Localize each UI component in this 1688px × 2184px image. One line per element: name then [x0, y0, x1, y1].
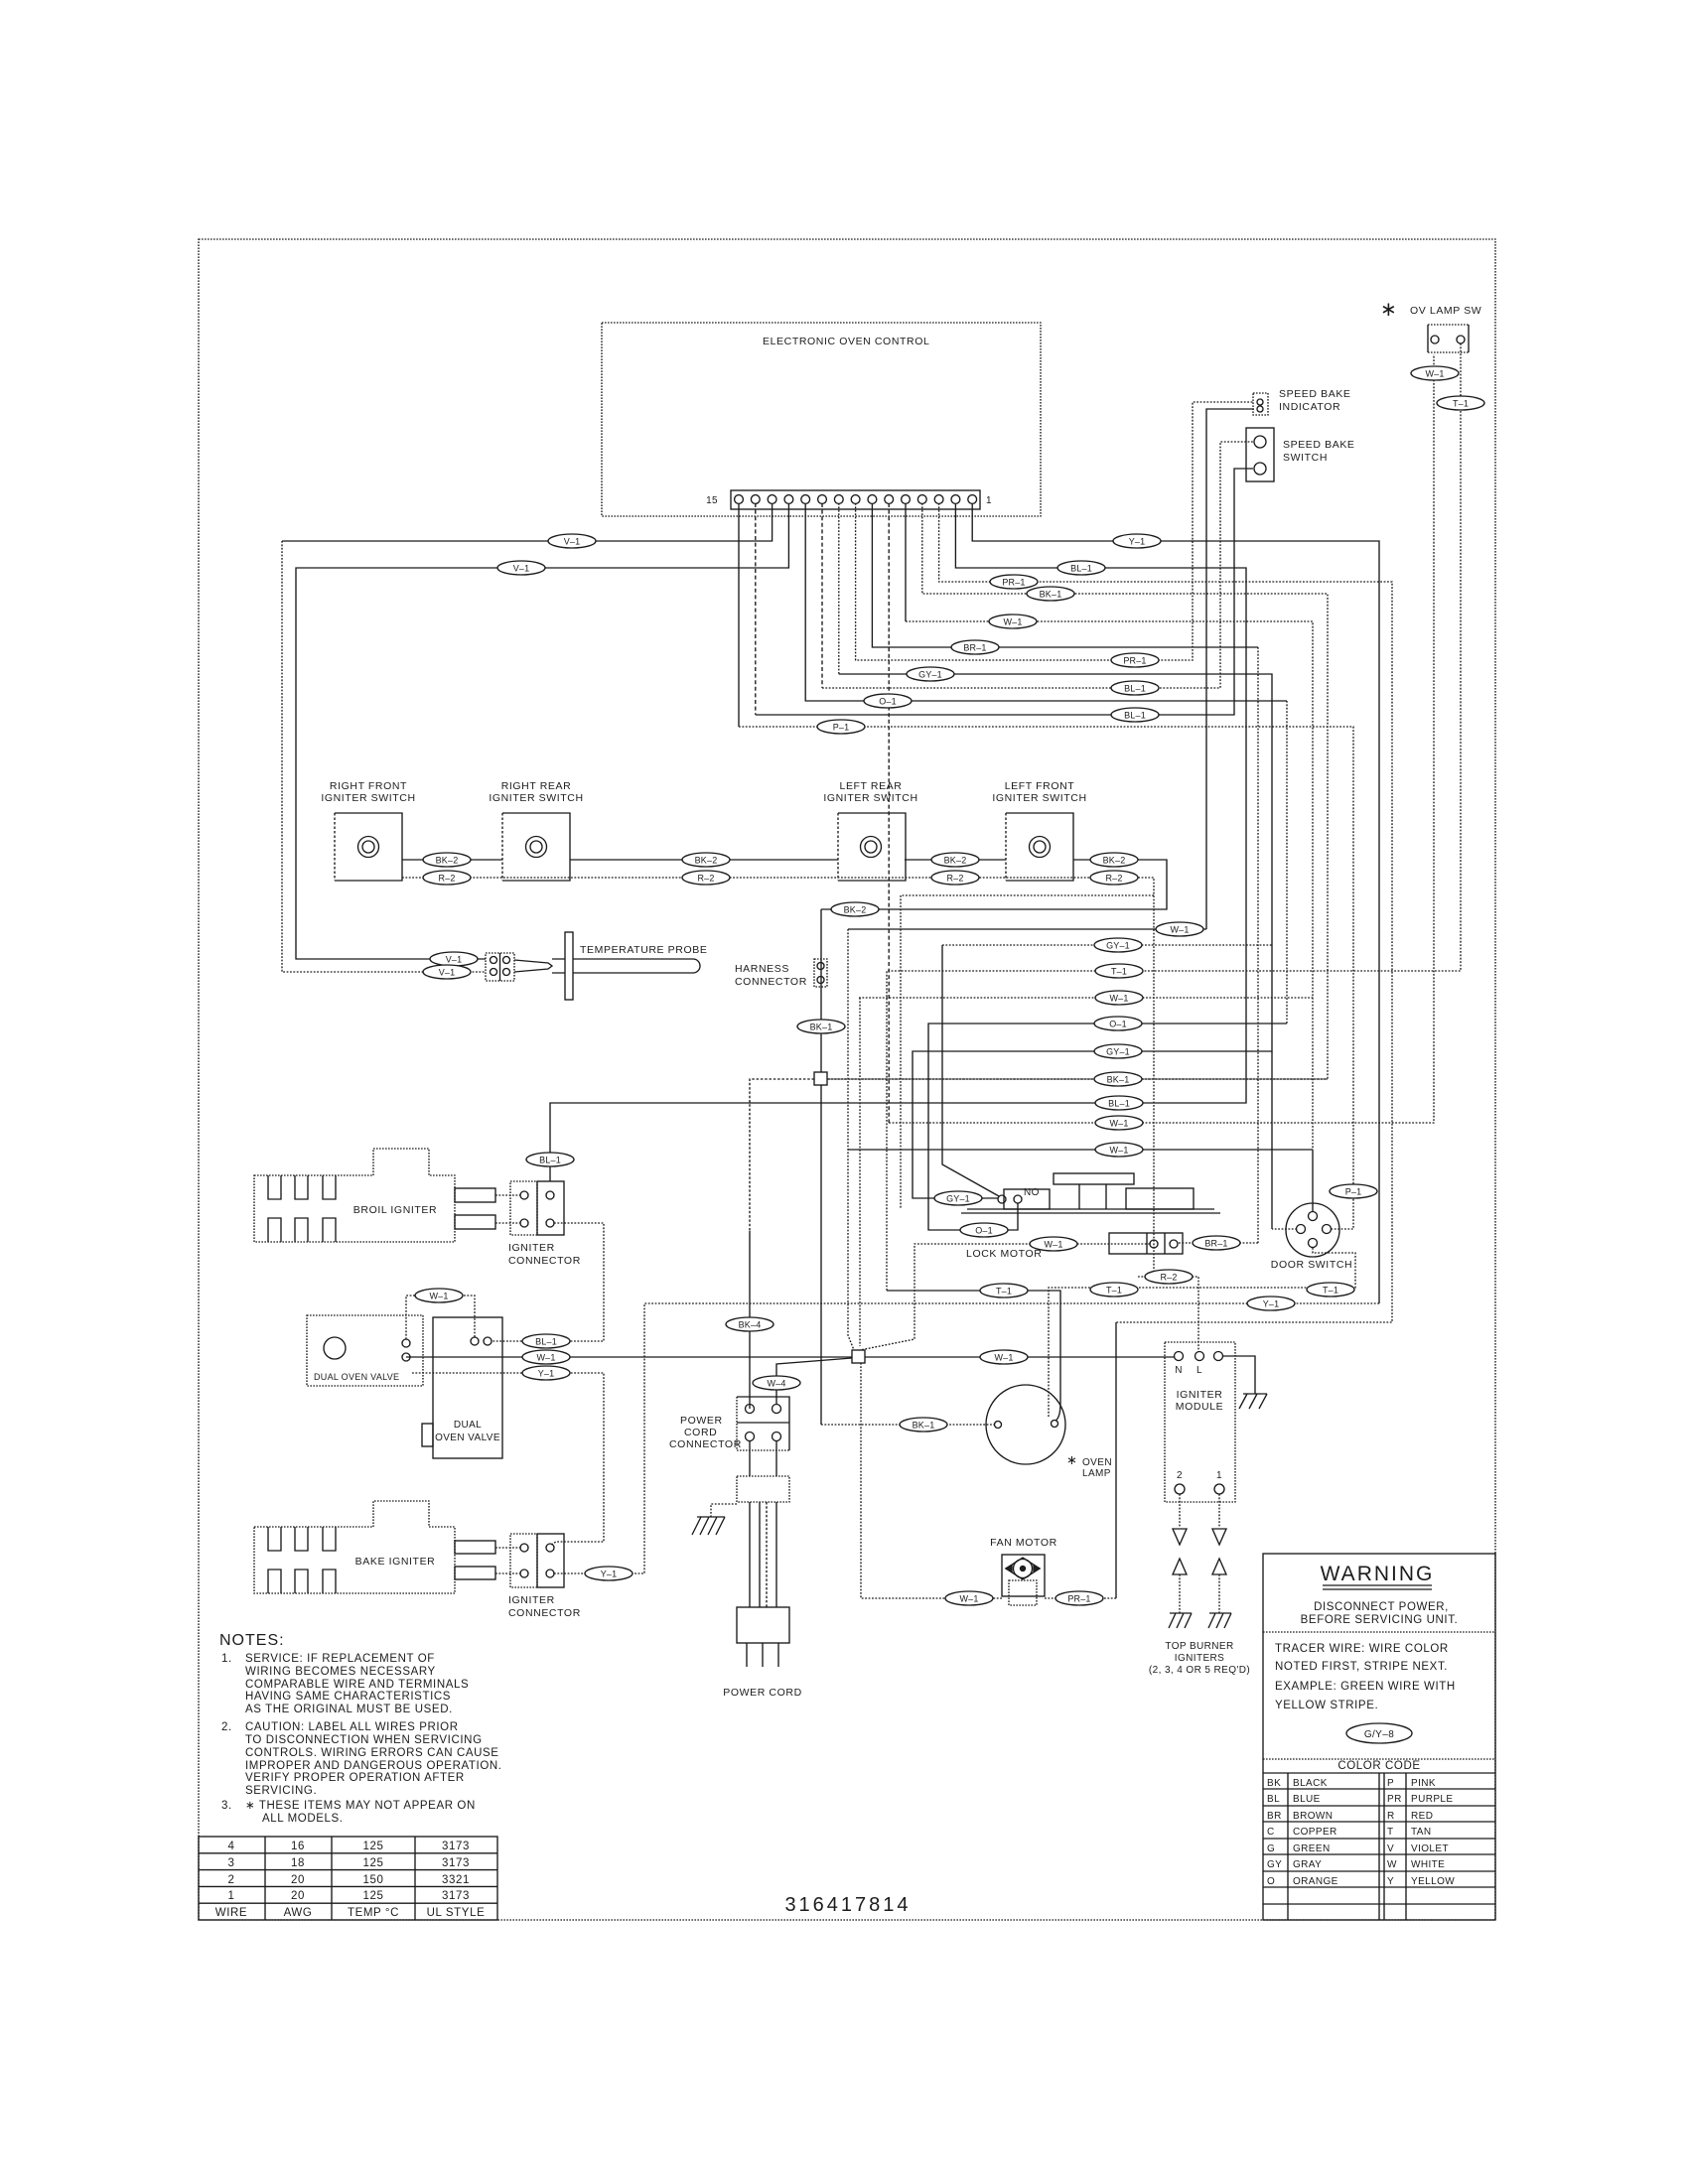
- svg-text:O: O: [1267, 1876, 1275, 1887]
- oval BK-1: [1094, 1072, 1142, 1086]
- wire BK-1: pin4 to junction run via x1337: [827, 503, 1328, 1079]
- svg-text:MODULE: MODULE: [1176, 1401, 1224, 1413]
- svg-text:BLUE: BLUE: [1293, 1794, 1321, 1805]
- svg-text:3173: 3173: [442, 1841, 470, 1852]
- oval R-2: [931, 871, 979, 885]
- junction node BK-1: [814, 1072, 827, 1085]
- svg-text:1.: 1.: [221, 1653, 232, 1665]
- wire bake tabs to connector: [495, 1548, 520, 1573]
- svg-text:R: R: [1387, 1811, 1395, 1822]
- electronic oven control box: [602, 323, 1041, 516]
- svg-text:COPPER: COPPER: [1293, 1827, 1337, 1838]
- wire gauge table: [199, 1837, 497, 1920]
- svg-text:NO: NO: [1024, 1187, 1040, 1198]
- wire V-1 lower: pin12 left loop to temperature probe: [296, 503, 788, 959]
- pin 9: [834, 495, 843, 504]
- svg-text:W–1: W–1: [1425, 369, 1444, 379]
- wire O-1 from NO lower contact: [1007, 1203, 1018, 1230]
- svg-text:HARNESS: HARNESS: [735, 963, 789, 975]
- svg-text:BL–1: BL–1: [539, 1156, 561, 1165]
- pin 13: [768, 495, 776, 504]
- oval BL-1: [1111, 708, 1159, 722]
- svg-text:3: 3: [228, 1857, 235, 1869]
- svg-text:BK–1: BK–1: [1040, 590, 1062, 600]
- oval PR-1: [1111, 653, 1159, 667]
- wire door switch left terminal to GY vertical: [1272, 1228, 1297, 1230]
- oval Y-1: [522, 1366, 570, 1380]
- oval O-1: [864, 694, 912, 708]
- svg-text:R–2: R–2: [697, 874, 714, 884]
- oval W-1: [1411, 366, 1459, 380]
- oval BR-1: [1193, 1236, 1240, 1250]
- svg-text:V–1: V–1: [446, 955, 463, 965]
- svg-text:BK–1: BK–1: [913, 1421, 935, 1431]
- oval GY-1: [1094, 1044, 1142, 1058]
- svg-text:R–2: R–2: [1105, 874, 1122, 884]
- oval V-1: [497, 561, 545, 575]
- notes text: [219, 1632, 502, 1825]
- pin 3: [934, 495, 943, 504]
- svg-text:DOOR SWITCH: DOOR SWITCH: [1271, 1259, 1352, 1271]
- svg-text:16: 16: [291, 1841, 305, 1852]
- svg-text:BL–1: BL–1: [1124, 684, 1146, 694]
- node W-4 junction square: [852, 1350, 865, 1363]
- svg-text:20: 20: [291, 1890, 305, 1902]
- igniter module: [1165, 1342, 1235, 1502]
- svg-text:LEFT FRONT: LEFT FRONT: [1005, 780, 1075, 792]
- svg-text:W: W: [1387, 1859, 1397, 1870]
- svg-text:L: L: [1196, 1365, 1202, 1376]
- svg-text:AS THE ORIGINAL MUST BE U: AS THE ORIGINAL MUST BE USED.: [245, 1704, 453, 1715]
- svg-text:T–1: T–1: [1111, 967, 1127, 977]
- wire PR-1: pin8 to speed bake indicator: [856, 402, 1254, 660]
- wire W-1: pin6 long drop to y1133 run: [888, 503, 890, 1123]
- wire Y-1 bake connector lower: [554, 1572, 632, 1574]
- svg-text:DUAL: DUAL: [454, 1420, 482, 1431]
- wire GY-1 into NO contact: [981, 1197, 998, 1199]
- svg-text:W–1: W–1: [1109, 994, 1128, 1004]
- svg-text:3173: 3173: [442, 1857, 470, 1869]
- lock motor assembly: [961, 1173, 1220, 1260]
- wire P-1: pin15 down / run to door switch right via x1363: [738, 503, 740, 727]
- svg-text:20: 20: [291, 1874, 305, 1886]
- wire W-1 y936 run: [848, 928, 1206, 930]
- svg-text:4: 4: [228, 1841, 235, 1852]
- svg-text:V: V: [1387, 1843, 1394, 1854]
- pin 4: [917, 495, 926, 504]
- pin 8: [851, 495, 860, 504]
- svg-text:W–4: W–4: [767, 1379, 785, 1389]
- dual oven valve 1: [307, 1315, 423, 1386]
- pin 7: [868, 495, 877, 504]
- wire BK-2 between switches: [402, 859, 1006, 861]
- wire BL-1: pin10 to speed bake switch: [821, 503, 823, 688]
- wire GY-1: pin9 down via x1281: [838, 503, 840, 674]
- oval R-2: [682, 871, 730, 885]
- svg-text:2: 2: [228, 1874, 235, 1886]
- svg-text:O–1: O–1: [1109, 1020, 1127, 1029]
- svg-text:ORANGE: ORANGE: [1293, 1876, 1338, 1887]
- oval BK-2: [1090, 853, 1138, 867]
- svg-text:COMPARABLE WIRE AND TERMINA: COMPARABLE WIRE AND TERMINALS: [245, 1679, 469, 1691]
- svg-text:RED: RED: [1411, 1811, 1433, 1822]
- svg-text:IGNITER SWITCH: IGNITER SWITCH: [823, 792, 917, 804]
- svg-text:BK–2: BK–2: [1103, 856, 1126, 866]
- svg-text:CONNECTOR: CONNECTOR: [669, 1438, 742, 1450]
- wire R-2 chain under switches to module drop: [402, 878, 1154, 1277]
- color code table: [1263, 1759, 1495, 1920]
- pin 11: [801, 495, 810, 504]
- svg-text:Y–1: Y–1: [538, 1369, 555, 1379]
- svg-text:AWG: AWG: [284, 1907, 313, 1919]
- svg-text:CONNECTOR: CONNECTOR: [735, 976, 807, 988]
- svg-text:IGNITER: IGNITER: [508, 1242, 555, 1254]
- wire V-1 upper: pin13 left loop to temperature probe: [282, 503, 773, 541]
- wire R-2 branch to x907: [901, 895, 1154, 1209]
- wire BK-2 from left front switch down to harness vertical: [821, 860, 1167, 909]
- right rear igniter switch: [489, 780, 583, 881]
- svg-text:2: 2: [1177, 1470, 1183, 1481]
- svg-text:Y: Y: [1387, 1876, 1394, 1887]
- wire W-1 fan motor left to node: [861, 1363, 1002, 1598]
- oval P-1: [817, 720, 865, 734]
- svg-text:YELLOW STRIPE.: YELLOW STRIPE.: [1275, 1700, 1378, 1711]
- svg-text:EXAMPLE: GREEN WIRE WITH: EXAMPLE: GREEN WIRE WITH: [1275, 1681, 1456, 1693]
- svg-text:TEMPERATURE PROBE: TEMPERATURE PROBE: [580, 944, 707, 956]
- svg-text:C: C: [1267, 1827, 1275, 1838]
- svg-text:PURPLE: PURPLE: [1411, 1794, 1453, 1805]
- svg-text:LEFT REAR: LEFT REAR: [840, 780, 903, 792]
- svg-text:∗ THESE ITEMS MAY NOT APP: ∗ THESE ITEMS MAY NOT APPEAR ON: [245, 1800, 476, 1812]
- svg-text:VERIFY PROPER OPERATION AFT: VERIFY PROPER OPERATION AFTER: [245, 1772, 465, 1784]
- svg-text:HAVING SAME CHARACTERISTICS: HAVING SAME CHARACTERISTICS: [245, 1691, 451, 1703]
- svg-text:1: 1: [1216, 1470, 1222, 1481]
- oval P-1: [1330, 1184, 1377, 1198]
- oval BK-2: [423, 853, 471, 867]
- oval W-1: [989, 614, 1037, 628]
- svg-text:RIGHT REAR: RIGHT REAR: [501, 780, 572, 792]
- pin 10: [818, 495, 827, 504]
- oval V-1: [430, 952, 478, 966]
- svg-text:UL STYLE: UL STYLE: [427, 1907, 486, 1919]
- oval T-1: [1090, 1283, 1138, 1297]
- svg-text:W–1: W–1: [429, 1292, 448, 1301]
- wire W-1 lock motor left terminal: [860, 1244, 1150, 1350]
- svg-text:T–1: T–1: [1106, 1286, 1122, 1296]
- wire W-1 x854 drop to W-4 node: [848, 929, 854, 1350]
- oval W-1: [945, 1591, 993, 1605]
- svg-text:GY: GY: [1267, 1859, 1282, 1870]
- power cord: [723, 1440, 802, 1699]
- svg-text:GY–1: GY–1: [1106, 1047, 1130, 1057]
- oval BL-1: [522, 1334, 570, 1348]
- svg-text:Y–1: Y–1: [601, 1570, 618, 1579]
- left front igniter switch: [992, 780, 1086, 881]
- svg-text:BK–1: BK–1: [1107, 1075, 1130, 1085]
- EOC terminal strip: [706, 490, 992, 509]
- svg-text:T–1: T–1: [996, 1287, 1012, 1297]
- ground at igniter module third terminal: [1223, 1356, 1267, 1409]
- pin 6: [885, 495, 894, 504]
- oval T-1: [980, 1284, 1028, 1297]
- svg-text:BK: BK: [1267, 1778, 1281, 1789]
- oval W-1: [980, 1350, 1028, 1364]
- svg-text:BK–2: BK–2: [436, 856, 459, 866]
- svg-text:PR–1: PR–1: [1067, 1594, 1090, 1604]
- svg-text:125: 125: [363, 1841, 384, 1852]
- svg-text:125: 125: [363, 1890, 384, 1902]
- svg-text:NOTES:: NOTES:: [219, 1632, 285, 1649]
- wire Y-1 valve to bake connector: [412, 1373, 604, 1546]
- svg-text:TRACER WIRE: WIRE COLOR: TRACER WIRE: WIRE COLOR: [1275, 1643, 1449, 1655]
- svg-text:G: G: [1267, 1843, 1275, 1854]
- svg-text:W–1: W–1: [1109, 1119, 1128, 1129]
- oval W-4: [753, 1376, 800, 1390]
- oval W-1: [1095, 1143, 1143, 1157]
- oval T-1: [1437, 396, 1484, 410]
- svg-text:1: 1: [228, 1890, 235, 1902]
- page border frame: [199, 239, 1495, 1920]
- svg-text:P: P: [1387, 1778, 1394, 1789]
- svg-text:BL–1: BL–1: [1070, 564, 1092, 574]
- wire BR-1: pin7 to lock motor terminal via x1267: [872, 503, 1258, 647]
- wire BL-1: pin2 to broil igniter connector via x1255: [550, 503, 1246, 1181]
- oval R-2: [1145, 1270, 1193, 1284]
- oval BK-2: [682, 853, 730, 867]
- svg-text:V–1: V–1: [513, 564, 530, 574]
- oval BL-1: [1057, 561, 1105, 575]
- wire PR-1: pin3 to fan motor via x1402: [939, 503, 1392, 1322]
- svg-text:PR–1: PR–1: [1123, 656, 1146, 666]
- oval BK-2: [931, 853, 979, 867]
- svg-text:SERVICE: IF REPLACEMENT O: SERVICE: IF REPLACEMENT OF: [245, 1653, 435, 1665]
- svg-text:IGNITER: IGNITER: [1177, 1389, 1223, 1401]
- svg-text:SWITCH: SWITCH: [1283, 452, 1328, 464]
- svg-text:∗: ∗: [1066, 1452, 1077, 1467]
- speed bake indicator: [1253, 388, 1351, 415]
- svg-text:PINK: PINK: [1411, 1778, 1436, 1789]
- svg-text:125: 125: [363, 1857, 384, 1869]
- wire BL-1: pin14 to speed bake switch lower: [755, 503, 757, 715]
- wire GY-1 y952 run: [942, 944, 1272, 946]
- bake igniter connector: [508, 1534, 581, 1619]
- svg-text:316417814: 316417814: [784, 1894, 911, 1916]
- oval G/Y-8 example: [1346, 1723, 1412, 1743]
- wire GY-1 x949 drop with lever to lock motor: [942, 945, 999, 1196]
- svg-text:RIGHT FRONT: RIGHT FRONT: [330, 780, 407, 792]
- oval BL-1: [1111, 681, 1159, 695]
- pin 14: [751, 495, 760, 504]
- wire O-1: pin11 down via x1297: [805, 503, 1287, 701]
- oval Y-1: [585, 1567, 633, 1580]
- oval GY-1: [934, 1191, 982, 1205]
- svg-text:CONTROLS. WIRING ERRORS C: CONTROLS. WIRING ERRORS CAN CAUSE: [245, 1747, 499, 1759]
- svg-text:TAN: TAN: [1411, 1827, 1431, 1838]
- wire BK-1 harness vertical down to junction and oven lamp: [820, 909, 822, 1425]
- svg-text:IGNITERS: IGNITERS: [1175, 1653, 1224, 1664]
- bake igniter: [254, 1501, 495, 1593]
- svg-text:BL–1: BL–1: [1108, 1099, 1130, 1109]
- pin 12: [784, 495, 793, 504]
- svg-text:SERVICING.: SERVICING.: [245, 1785, 317, 1797]
- svg-text:TEMP °C: TEMP °C: [348, 1907, 399, 1919]
- svg-text:BL–1: BL–1: [535, 1337, 557, 1347]
- wire PR-1 fan right stub: [1045, 1597, 1055, 1599]
- temperature probe: [514, 932, 707, 1000]
- oval PR-1: [1055, 1591, 1103, 1605]
- svg-text:WHITE: WHITE: [1411, 1859, 1445, 1870]
- broil igniter: [254, 1149, 495, 1242]
- svg-text:BK–2: BK–2: [844, 905, 867, 915]
- oval PR-1: [990, 575, 1038, 589]
- oval BK-1: [1027, 587, 1074, 601]
- svg-text:WIRE: WIRE: [215, 1907, 247, 1919]
- oval W-1: [522, 1350, 570, 1364]
- svg-text:POWER: POWER: [680, 1415, 723, 1427]
- svg-text:ELECTRONIC OVEN CONTROL: ELECTRONIC OVEN CONTROL: [763, 336, 929, 347]
- svg-text:NOTED FIRST, STRIPE NEXT.: NOTED FIRST, STRIPE NEXT.: [1275, 1661, 1448, 1673]
- oval BK-1: [900, 1418, 947, 1432]
- svg-text:BAKE IGNITER: BAKE IGNITER: [355, 1556, 436, 1568]
- oval BR-1: [951, 640, 999, 654]
- svg-text:DUAL OVEN VALVE: DUAL OVEN VALVE: [314, 1372, 399, 1382]
- harness connector: [735, 959, 827, 988]
- svg-text:O–1: O–1: [879, 697, 897, 707]
- power cord connector: [669, 1397, 789, 1450]
- svg-text:W–1: W–1: [1109, 1146, 1128, 1156]
- ground at power cord: [692, 1504, 737, 1535]
- svg-text:CONNECTOR: CONNECTOR: [508, 1607, 581, 1619]
- pin 15: [735, 495, 744, 504]
- svg-text:T–1: T–1: [1453, 399, 1469, 409]
- svg-text:BEFORE SERVICING UNIT.: BEFORE SERVICING UNIT.: [1301, 1614, 1459, 1626]
- svg-text:BL: BL: [1267, 1794, 1280, 1805]
- svg-text:SPEED BAKE: SPEED BAKE: [1283, 439, 1355, 451]
- svg-text:PR: PR: [1387, 1794, 1402, 1805]
- svg-text:∗: ∗: [1380, 299, 1397, 321]
- svg-text:GY–1: GY–1: [946, 1194, 970, 1204]
- svg-text:GREEN: GREEN: [1293, 1843, 1331, 1854]
- svg-text:Y–1: Y–1: [1129, 537, 1146, 547]
- ov lamp switch: [1380, 299, 1481, 352]
- svg-text:(2, 3, 4 OR 5 REQ'D): (2, 3, 4 OR 5 REQ'D): [1149, 1665, 1250, 1676]
- svg-text:T–1: T–1: [1323, 1286, 1338, 1296]
- svg-text:3173: 3173: [442, 1890, 470, 1902]
- dual oven valve 2: [422, 1317, 502, 1458]
- oval T-1: [1307, 1283, 1354, 1297]
- svg-text:BR–1: BR–1: [963, 643, 986, 653]
- svg-text:PR–1: PR–1: [1002, 578, 1025, 588]
- oval W-1: [415, 1289, 463, 1302]
- right front igniter switch: [321, 780, 415, 881]
- svg-text:W–1: W–1: [994, 1353, 1013, 1363]
- svg-text:T: T: [1387, 1827, 1394, 1838]
- svg-text:BLACK: BLACK: [1293, 1778, 1328, 1789]
- oval W-1: [1156, 922, 1203, 936]
- wire W-1 y1005 run: [859, 997, 1313, 999]
- pin 5: [902, 495, 911, 504]
- svg-text:LAMP: LAMP: [1082, 1468, 1111, 1479]
- svg-text:W–1: W–1: [1044, 1240, 1062, 1250]
- door switch: [1271, 1203, 1352, 1271]
- oval O-1: [960, 1223, 1008, 1237]
- svg-text:FAN MOTOR: FAN MOTOR: [990, 1537, 1057, 1549]
- temperature probe connector: [486, 953, 514, 981]
- svg-text:BK–1: BK–1: [810, 1023, 833, 1032]
- svg-text:P–1: P–1: [833, 723, 850, 733]
- svg-text:OV LAMP SW: OV LAMP SW: [1410, 305, 1481, 317]
- warning box: [1263, 1554, 1495, 1920]
- fan motor: [990, 1537, 1057, 1605]
- svg-text:W–1: W–1: [959, 1594, 978, 1604]
- svg-text:BK–2: BK–2: [695, 856, 718, 866]
- oval W-1: [1030, 1237, 1077, 1251]
- wire Y-1: pin1 right then down to y1313 run: [972, 503, 1379, 1303]
- svg-text:BR: BR: [1267, 1811, 1282, 1822]
- oven lamp: [986, 1385, 1112, 1479]
- svg-text:IGNITER: IGNITER: [508, 1594, 555, 1606]
- svg-text:15: 15: [706, 495, 718, 506]
- svg-text:TO DISCONNECTION WHEN SERVI: TO DISCONNECTION WHEN SERVICING: [245, 1734, 483, 1746]
- svg-text:GY–1: GY–1: [1106, 941, 1130, 951]
- wire to indicator lower: [1206, 409, 1254, 929]
- wire W-1 valve1 top to valve2: [406, 1296, 475, 1339]
- svg-text:BK–4: BK–4: [739, 1320, 762, 1330]
- top burner igniters arrows: [1149, 1494, 1250, 1676]
- svg-text:18: 18: [291, 1857, 305, 1869]
- svg-text:GY–1: GY–1: [918, 670, 942, 680]
- oval GY-1: [1094, 938, 1142, 952]
- svg-text:150: 150: [363, 1874, 384, 1886]
- svg-text:N: N: [1175, 1365, 1183, 1376]
- wire W-4 connector to node: [776, 1358, 852, 1405]
- svg-text:VIOLET: VIOLET: [1411, 1843, 1449, 1854]
- oval BL-1: [526, 1153, 574, 1166]
- oval BK-4: [726, 1317, 774, 1331]
- wire T-1 from ov lamp switch down to y978 run: [887, 343, 1461, 1291]
- svg-text:V–1: V–1: [439, 968, 456, 978]
- svg-text:COLOR CODE: COLOR CODE: [1337, 1760, 1420, 1772]
- svg-text:GRAY: GRAY: [1293, 1859, 1322, 1870]
- wire broil tabs to connector: [495, 1195, 520, 1223]
- svg-text:BR–1: BR–1: [1204, 1239, 1227, 1249]
- svg-text:INDICATOR: INDICATOR: [1279, 401, 1340, 413]
- wire W-1: pin5 down right to door switch top via x1322: [905, 503, 907, 621]
- svg-text:O–1: O–1: [975, 1226, 993, 1236]
- pin 2: [951, 495, 960, 504]
- svg-text:WARNING: WARNING: [1321, 1563, 1435, 1585]
- svg-text:TOP BURNER: TOP BURNER: [1165, 1641, 1233, 1652]
- svg-text:DISCONNECT POWER,: DISCONNECT POWER,: [1314, 1601, 1449, 1613]
- speed bake switch: [1246, 428, 1355, 481]
- oval Y-1: [1247, 1297, 1295, 1310]
- oval BK-2: [831, 902, 879, 916]
- svg-text:BL–1: BL–1: [1124, 711, 1146, 721]
- svg-text:BROIL IGNITER: BROIL IGNITER: [353, 1204, 437, 1216]
- oval O-1: [1094, 1017, 1142, 1030]
- svg-text:IGNITER SWITCH: IGNITER SWITCH: [321, 792, 415, 804]
- svg-text:R–2: R–2: [438, 874, 455, 884]
- svg-text:2.: 2.: [221, 1721, 232, 1733]
- oval GY-1: [907, 667, 954, 681]
- wire W-1 y1157 solid run: [848, 1149, 1313, 1151]
- pin 1: [968, 495, 977, 504]
- wire BK-1 junction left arm to power cord drop: [750, 1079, 814, 1231]
- svg-text:CONNECTOR: CONNECTOR: [508, 1255, 581, 1267]
- wire W-1 x865 drop to W-4 node: [859, 998, 861, 1346]
- wire BL-1 broil connector to valve2: [492, 1223, 604, 1341]
- svg-text:3321: 3321: [442, 1874, 470, 1886]
